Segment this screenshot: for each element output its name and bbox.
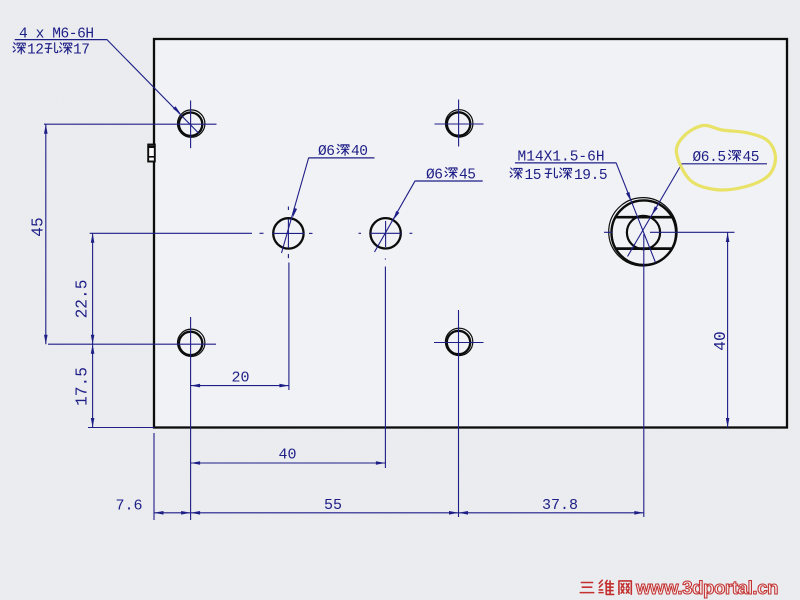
dimension 40 bottom line — [191, 462, 386, 464]
centerline hole M6 top-middle horizontal — [435, 123, 484, 125]
note text line2: shen12 kong shen17 — [13, 43, 25, 54]
hole M6 bottom-middle: drilled hole bold circle — [447, 331, 470, 354]
paper texture — [0, 0, 1, 1]
svg-text:19.5: 19.5 — [574, 168, 607, 184]
underline of M6 note — [15, 39, 107, 41]
svg-text:37.8: 37.8 — [542, 497, 578, 514]
centerline hole D6-40 horizontal dashes — [260, 232, 264, 234]
leader M6 note — [107, 39, 199, 133]
dimension 45 vertical line — [45, 124, 47, 344]
svg-text:40: 40 — [278, 447, 296, 464]
hole M6 bottom-middle: thin thread circle — [445, 328, 472, 355]
centerline hole D6-45 vertical and ext down to dim 40 — [385, 221, 387, 247]
watermark: san wei wang www.3dportal.cn — [580, 583, 594, 593]
svg-text:22.5: 22.5 — [74, 280, 92, 319]
centerline hole M6 bottom-middle horizontal — [434, 342, 484, 344]
hole M6 top-left: drilled hole bold circle — [179, 113, 202, 136]
hole D6 depth40 bold circle — [273, 218, 303, 248]
hole M6 top-middle: thin thread circle — [446, 110, 473, 137]
svg-text:55: 55 — [324, 497, 342, 514]
svg-text:15: 15 — [525, 168, 542, 184]
centerline hole M6 top-middle vertical — [458, 100, 460, 147]
centerline hole M6 bottom-left horizontal (ext line of dims 45/22.5/17.5) — [48, 343, 216, 345]
leader D6.5 note — [628, 164, 683, 257]
underline of M14 note — [515, 162, 616, 164]
centerline hole M6 top-left horizontal (also ext line of dim 45) — [44, 123, 217, 125]
hole M6 bottom-left: drilled hole bold circle — [179, 332, 202, 355]
dimension 20 line — [191, 385, 289, 387]
svg-text:17.5: 17.5 — [74, 367, 92, 406]
centerline hole M14 vertical down to dim chain — [643, 234, 645, 517]
dimension 40 right vertical line — [727, 233, 729, 428]
hole M14 inner D6.5 bold circle — [627, 216, 660, 249]
leader D6 depth40 — [282, 158, 309, 253]
centerline hole M6 bottom-middle vertical extended down to dim chain — [458, 310, 460, 517]
svg-text:45: 45 — [30, 217, 48, 236]
yellow hand-drawn highlight loop — [676, 125, 775, 190]
hole M14 thin thread circle — [609, 198, 677, 266]
centerline hole M14 horizontal left dash — [604, 231, 612, 233]
underline of D6-45 note — [415, 180, 483, 182]
svg-text:40: 40 — [712, 331, 730, 350]
svg-text:7.6: 7.6 — [115, 498, 142, 515]
hole M14 bold circle — [612, 200, 677, 265]
underline of D6.5 note — [682, 163, 767, 165]
svg-text:www.3dportal.cn: www.3dportal.cn — [635, 577, 778, 598]
note text line2: shen15 kong shen19.5 — [510, 168, 522, 179]
ext line from plate left edge down — [153, 433, 155, 520]
leader D6 depth45 — [375, 181, 416, 252]
dimension 37.8 line — [459, 512, 644, 514]
plate outline — [154, 39, 787, 428]
centerline hole M14 horizontal right (ext of dim 40 vertical) — [650, 231, 735, 233]
hole M14 counterbore top chord — [616, 216, 673, 219]
ext line at plate bottom for 17.5 — [88, 427, 154, 429]
centerline hole M6 top-left vertical — [190, 101, 192, 149]
hole M14 counterbore bottom chord — [616, 247, 673, 250]
hole M6 top-left: thin thread circle — [178, 110, 205, 137]
leader M14 note — [616, 163, 656, 263]
centerline hole D6-40 vertical dashes and ext down to dim 20 — [287, 207, 289, 211]
centerline hole D6-40 horizontal: long ext to dim 22.5 — [90, 232, 252, 234]
dimension 55 line — [191, 512, 459, 514]
hole D6 depth45 bold circle — [370, 218, 400, 248]
underline of D6-40 note — [309, 157, 375, 159]
centerline hole D6-45 horizontal dashes — [359, 232, 362, 234]
dimension 7.6 line — [154, 512, 191, 514]
svg-text:17: 17 — [73, 43, 90, 59]
svg-text:20: 20 — [231, 370, 249, 387]
dimension 17.5 vertical line — [92, 344, 94, 427]
centerline hole M6 bottom-left vertical extended to bottom dim chain — [190, 317, 192, 520]
edge notch on left side of plate — [148, 145, 155, 162]
dimension 22.5 vertical line — [92, 233, 94, 344]
svg-text:12: 12 — [27, 43, 44, 59]
hole M6 bottom-left: thin thread circle — [178, 329, 205, 356]
hole M6 top-middle: drilled hole bold circle — [447, 112, 470, 135]
